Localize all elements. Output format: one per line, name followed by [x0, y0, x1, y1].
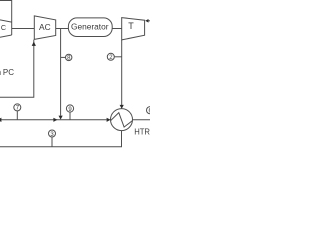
node 7 tick	[16, 111, 18, 120]
wire from left edge into AC bottom	[0, 40, 34, 98]
node 2 circle	[107, 53, 114, 60]
svg-text:PC: PC	[3, 68, 14, 77]
node 6 circle cut at right edge	[147, 107, 154, 114]
arrowhead left into turbine right side	[145, 19, 148, 23]
svg-text:T: T	[128, 21, 134, 31]
svg-text:AC: AC	[39, 22, 51, 32]
arrowhead up into AC bottom	[32, 42, 36, 46]
node 9 circle	[66, 105, 73, 112]
shaft wire C to AC	[12, 28, 35, 30]
svg-text:Generator: Generator	[71, 22, 109, 32]
node 2 tick	[114, 56, 121, 58]
node 3 tick	[51, 137, 53, 147]
node 8 circle	[66, 54, 72, 60]
node 3 circle	[49, 130, 56, 137]
svg-text:C: C	[1, 23, 6, 32]
generator	[68, 18, 112, 37]
node 9 tick	[69, 112, 71, 120]
wire top-left into compressor C	[0, 1, 12, 36]
arrowhead down at junction on bottom line	[59, 116, 63, 120]
node 7 circle	[14, 104, 21, 111]
wire from shaft junction down to bottom line	[60, 29, 62, 116]
compressor C	[0, 20, 12, 22]
shaft wire AC to Generator	[56, 28, 69, 30]
turbine inlet wire from right edge	[148, 20, 150, 22]
HTR bottom outlet wire	[0, 131, 122, 147]
bottom main wire into HTR	[0, 119, 107, 121]
HTR heat exchanger circle	[111, 109, 133, 131]
node 8 tick	[61, 56, 66, 58]
arrowhead left cut at left edge of bottom line	[0, 118, 1, 122]
svg-text:m: m	[0, 68, 1, 77]
svg-text:6: 6	[149, 108, 151, 114]
wire turbine exhaust down to HTR	[121, 40, 123, 105]
HTR zigzag	[111, 113, 133, 127]
svg-text:HTR: HTR	[134, 126, 150, 136]
arrowhead right on bottom line mid	[53, 118, 57, 122]
shaft wire Generator to T	[112, 28, 122, 30]
turbine T	[122, 18, 145, 40]
arrowhead right into HTR left	[107, 118, 111, 122]
HTR right outlet wire	[133, 119, 151, 121]
compressor AC	[34, 16, 55, 40]
arrowhead down into HTR top	[120, 105, 124, 109]
